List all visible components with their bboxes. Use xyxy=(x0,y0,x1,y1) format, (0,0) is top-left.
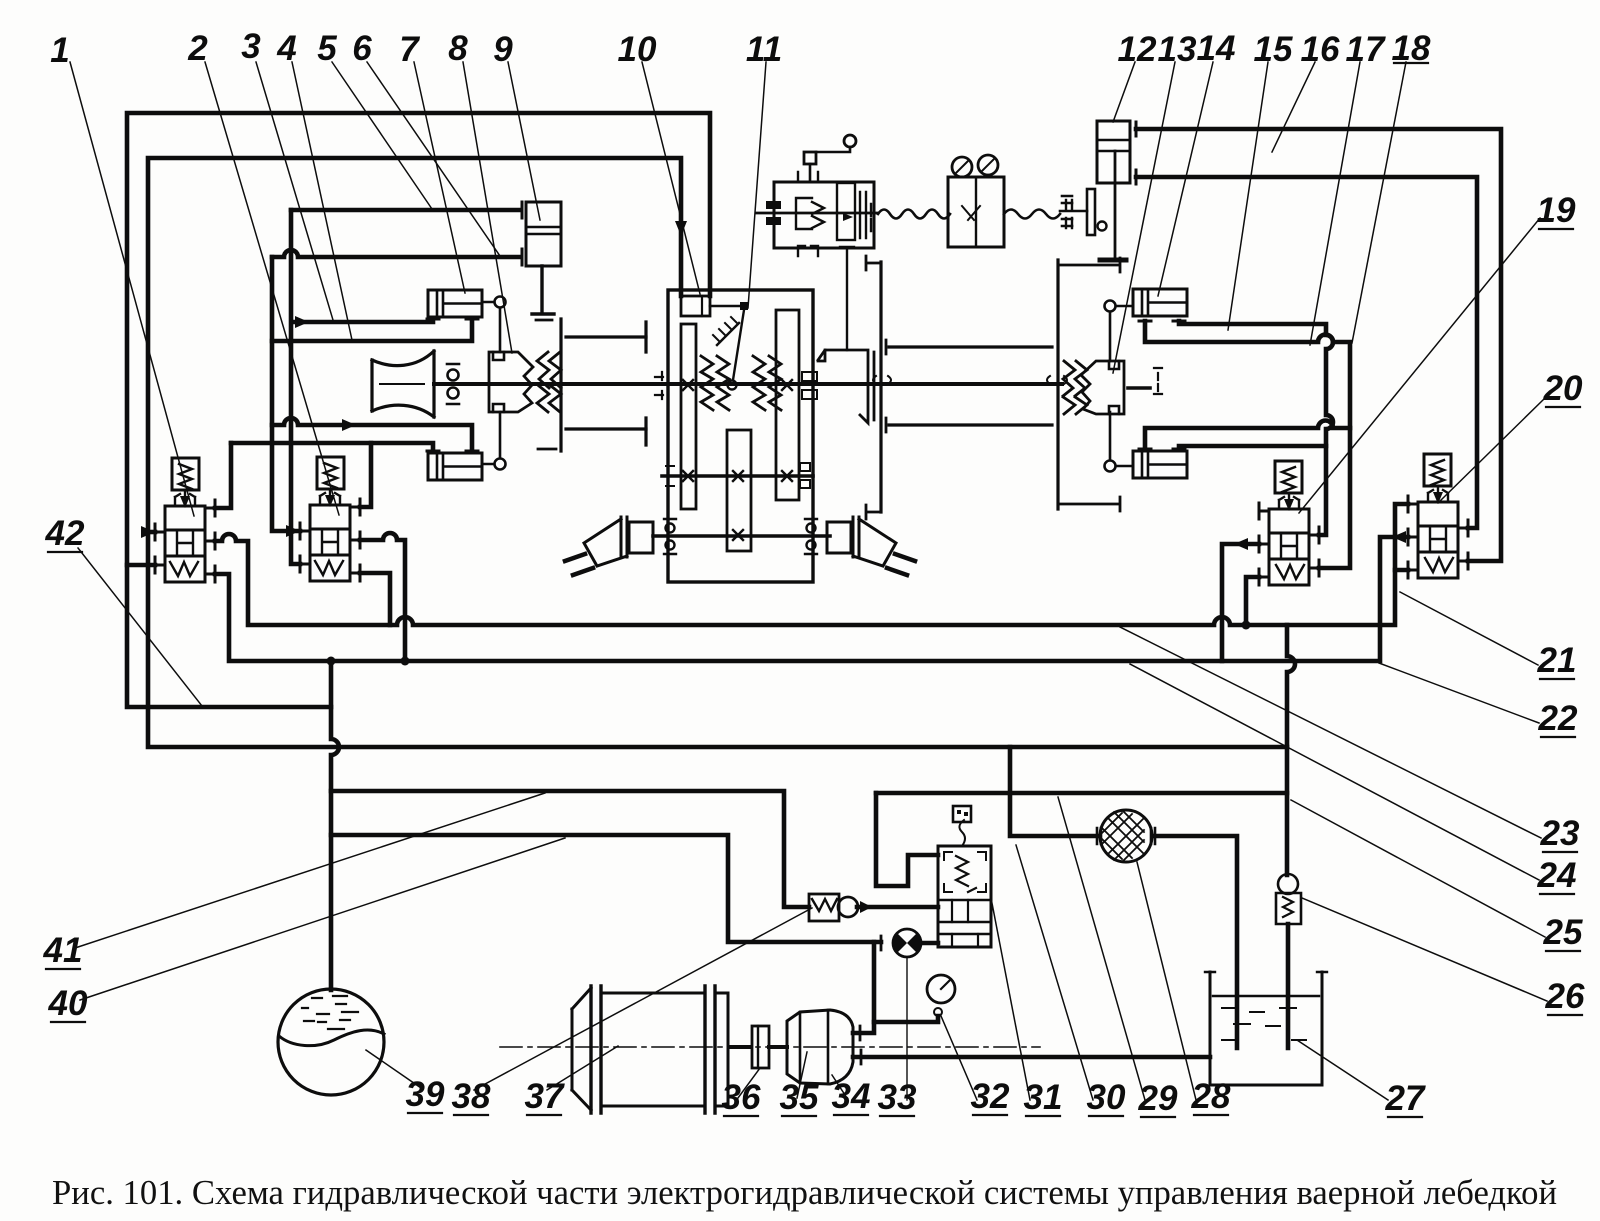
bearing curls at wheel shaft xyxy=(873,376,1067,384)
svg-text:36: 36 xyxy=(722,1078,761,1117)
clutch spring jaws xyxy=(537,352,549,412)
drum roller bars xyxy=(447,364,459,404)
svg-text:14: 14 xyxy=(1197,29,1236,68)
bottom bearing brackets xyxy=(798,246,818,256)
cylinder 15 (lower right brake cylinder) xyxy=(1133,451,1187,478)
pilot circle on lever xyxy=(844,135,856,147)
svg-text:15: 15 xyxy=(1254,30,1293,69)
wire: left stub to valve V1 mid-left port xyxy=(148,530,155,535)
wire: pump suction from tank 27 xyxy=(853,1055,1210,1060)
svg-text:10: 10 xyxy=(618,30,657,69)
leader 37 xyxy=(547,1046,618,1090)
motor left drain lines xyxy=(565,554,593,575)
leader 34 xyxy=(832,1075,847,1098)
cylinder 14 (upper right brake cylinder) xyxy=(1133,289,1187,316)
tank 27 wall caps xyxy=(1205,971,1327,973)
sensor roller right xyxy=(978,155,998,175)
svg-text:21: 21 xyxy=(1537,641,1577,680)
svg-text:Рис. 101. Схема гидравлической: Рис. 101. Схема гидравлической части эле… xyxy=(52,1173,1557,1212)
sensor box divider xyxy=(975,177,977,247)
arrow at valve V3 mid-left port xyxy=(1234,538,1248,550)
right jaw clutch block xyxy=(1081,361,1124,414)
swash plate pivot xyxy=(1098,222,1107,231)
mechanism shaft xyxy=(756,212,878,215)
clutch block notches xyxy=(493,352,504,412)
gear mesh right pair xyxy=(753,356,781,410)
cylinder 9 port bars xyxy=(521,202,524,265)
winch drum (item 39-area spool) xyxy=(372,351,434,417)
underlines labels 19-26 xyxy=(1539,229,1582,1015)
link circle lower xyxy=(1105,461,1116,472)
wire: pipe from cylinder 12 upper port to right rail x1501 valve V4 xyxy=(1136,129,1501,561)
small jaw clutch xyxy=(796,198,824,229)
cylinder 8 piston circle and rod xyxy=(495,459,506,470)
clutch spring jaw 2 xyxy=(549,352,561,412)
filter 28 xyxy=(1100,810,1152,862)
wire: check valve outlet to relief block xyxy=(857,905,938,910)
cylinder 12 rod and foot plate xyxy=(1114,151,1117,259)
selector cylinder divider xyxy=(701,296,703,316)
svg-text:42: 42 xyxy=(45,514,85,553)
bracket corner xyxy=(818,350,825,361)
cylinder 8 link and rod xyxy=(482,412,500,464)
right jaw clutch spring jaws xyxy=(1063,361,1075,414)
solenoid squiggle and connector 32-block xyxy=(959,820,965,846)
relief valve 26 xyxy=(1278,874,1298,894)
svg-text:4: 4 xyxy=(276,29,296,68)
main shaft left section xyxy=(434,382,1062,386)
flow arrow on line y322 xyxy=(295,316,309,328)
left bearing block lower xyxy=(766,217,781,225)
rope wavy line left of sensor xyxy=(878,210,950,219)
leader 14 xyxy=(1158,62,1213,296)
shaft3 roller lower-right xyxy=(807,541,816,550)
shaft3 X mark xyxy=(733,530,743,540)
relief spring tail xyxy=(968,888,976,892)
tank 39 level dashes xyxy=(302,996,358,1029)
motor output shaft xyxy=(730,1045,751,1049)
wire: relief pilot segment y793 xyxy=(876,791,1287,796)
cylinder 12 piston lines xyxy=(1097,140,1130,151)
X valve filled quadrants xyxy=(893,933,921,953)
wire: inner frame line y257 to cylinder 9 with hop xyxy=(272,250,519,257)
wire: valve V2 bottom-right riser down to bus1 xyxy=(360,573,390,625)
leader 38 xyxy=(474,908,812,1090)
svg-text:32: 32 xyxy=(971,1077,1010,1116)
cylinder 9 piston lines xyxy=(526,227,561,234)
cylinder 12 body xyxy=(1097,121,1130,183)
selector pin diamond xyxy=(740,302,748,310)
disc end bars xyxy=(536,320,556,449)
leader 10 xyxy=(642,62,700,294)
top bearing brackets xyxy=(798,172,818,182)
leader 22 xyxy=(1379,663,1539,723)
wire: valve V2 top-right port riser xyxy=(360,443,371,507)
hydraulic motor right xyxy=(827,522,851,553)
leader 17 xyxy=(1310,62,1360,345)
cylinder 12 foot plate xyxy=(1100,258,1126,263)
link pivot on shaft xyxy=(728,381,737,390)
jaw clutch left half xyxy=(489,352,533,412)
right channel xyxy=(860,192,866,238)
cylinder 12 port bars xyxy=(1135,122,1138,184)
svg-text:37: 37 xyxy=(525,1077,565,1116)
pressure gauge 32 xyxy=(927,975,955,1003)
svg-text:25: 25 xyxy=(1543,913,1583,952)
selector link xyxy=(733,310,744,380)
gear bar middle xyxy=(727,430,751,551)
wire: X-valve to relief block xyxy=(920,941,938,946)
shaft3 rollers right xyxy=(807,524,816,533)
right clutch block notches xyxy=(1109,361,1119,414)
wire: relief block top-left port piping xyxy=(876,793,938,886)
underline label 18 xyxy=(1394,62,1428,64)
sensor box xyxy=(948,177,1004,247)
leader 41 xyxy=(75,793,545,948)
wire: inner frame line y210 to cylinder 9 xyxy=(291,208,519,213)
shaft3 roller bars left xyxy=(664,519,676,554)
wire: relief valve 26 to tank 27 xyxy=(1286,924,1291,1048)
gear mesh waves xyxy=(701,356,729,410)
valve V4 (item 20, mirrored) xyxy=(1408,454,1468,578)
svg-text:16: 16 xyxy=(1301,30,1340,69)
arrow at valve V4 mid-left port xyxy=(1392,531,1406,543)
wire: pipe from cylinder 12 lower port to right rail x1477 valve V4 xyxy=(1136,177,1477,528)
svg-text:20: 20 xyxy=(1543,369,1583,408)
bearing glyphs near gearbox left xyxy=(655,372,663,399)
solenoid connector box 32 xyxy=(953,806,971,822)
cylinder 9 body xyxy=(526,202,561,266)
svg-text:9: 9 xyxy=(493,30,513,69)
swash plate stub xyxy=(1060,210,1087,213)
hydraulic motor left (item 10-area) xyxy=(629,522,653,553)
right disc stubs xyxy=(1058,258,1120,511)
motor right cone xyxy=(853,519,896,566)
drum shaft roller lower xyxy=(448,388,459,399)
leader 12 xyxy=(1113,62,1135,122)
leader 39 xyxy=(366,1050,421,1088)
left bearing blocks xyxy=(766,201,781,209)
svg-text:5: 5 xyxy=(317,29,337,68)
mechanism arrow xyxy=(843,213,853,221)
leader 35 xyxy=(797,1052,807,1098)
leader 21 xyxy=(1400,592,1538,665)
wire: left rail x291 down to valve V2 bottom port xyxy=(291,210,300,564)
leader 20 xyxy=(1438,398,1545,503)
leader 40 xyxy=(80,838,565,1000)
svg-text:35: 35 xyxy=(780,1078,819,1117)
oil tank 39 (sphere) xyxy=(278,989,384,1095)
svg-text:23: 23 xyxy=(1540,814,1580,853)
connector box dots xyxy=(957,810,968,816)
valve V3 (item 19, mirrored) xyxy=(1259,461,1319,585)
wire: valve V3 mid-left riser down crossing bus1 to bus2 xyxy=(1222,544,1259,661)
wire: left stub to valve V1 bottom-left port xyxy=(127,563,155,568)
anchor hatch ticks xyxy=(713,317,738,342)
node: bus2 junction tank riser xyxy=(327,657,336,666)
shaft crossing X marks xyxy=(683,380,792,390)
wire: valve V4 bottom-left stub xyxy=(1395,568,1408,573)
link rods xyxy=(1110,306,1133,466)
mechanism right bars xyxy=(870,204,872,231)
check valve 38 xyxy=(809,894,839,921)
leader 8 xyxy=(463,62,512,353)
gear bar right xyxy=(776,310,799,500)
svg-text:8: 8 xyxy=(448,29,468,68)
tank 27 liquid level xyxy=(1213,995,1319,997)
wire: valve V2 mid-right riser down to bus2 xyxy=(360,533,405,661)
cylinder 9 body xyxy=(522,202,561,314)
relief 26 spring box xyxy=(1276,893,1301,924)
selector pin and link xyxy=(710,305,742,308)
relief block cell dividers xyxy=(952,900,978,947)
svg-text:12: 12 xyxy=(1118,30,1157,69)
electric motor 37 xyxy=(572,988,728,1110)
small valve square xyxy=(804,152,816,164)
wire: valve V1 top-right port riser xyxy=(215,443,231,508)
coupling 36 xyxy=(752,1026,769,1068)
cylinder 7 port bars xyxy=(427,318,478,321)
pilot lever line xyxy=(816,147,850,152)
underlines labels 40-42 xyxy=(46,552,85,1022)
check valve spring xyxy=(812,899,837,911)
wire: bus 1 from valve V1 mid-right port to right valve V4 xyxy=(215,504,1408,625)
relief block dashed corners xyxy=(944,852,986,892)
motor right drain lines xyxy=(887,554,915,575)
wire: valve V3 bottom-left riser down to bus1 xyxy=(1246,577,1259,625)
svg-text:27: 27 xyxy=(1385,1079,1426,1118)
leader 7 xyxy=(414,62,465,293)
leader 1 xyxy=(70,62,194,516)
wire: rail A cylinder 14 right port to valve V3 top-right xyxy=(1179,321,1333,535)
wire: pump outlet riser xyxy=(853,942,874,1033)
gauge stem circle xyxy=(934,1008,942,1016)
leader 30 xyxy=(1016,845,1093,1100)
motor shaft dash-dot axis xyxy=(500,1046,1040,1048)
tank 39 oil level wave xyxy=(279,1030,384,1046)
wire: lower line y425 to cylinder 8 right port with hop xyxy=(272,418,472,451)
svg-text:40: 40 xyxy=(48,984,88,1023)
X distribution valve 33 xyxy=(893,929,921,957)
leader 18 xyxy=(1352,62,1406,343)
leader 26 xyxy=(1302,898,1547,1001)
wire: lower line y443 valve risers to cylinder 8 left port xyxy=(231,443,433,451)
wire: riser x1287 from bus1 to relief valve 26 with jog xyxy=(1287,625,1295,875)
check valve flow arrow xyxy=(860,901,872,913)
leader 32 xyxy=(941,1016,977,1100)
wire: branch down to filter xyxy=(1010,747,1097,836)
wire: pipe P2 second frame loop and long supply line to filter branch xyxy=(148,158,1287,747)
leader 6 xyxy=(367,62,500,256)
wheel end stubs xyxy=(866,256,881,519)
flow arrow on pipe P2 vertical xyxy=(675,221,687,236)
svg-text:6: 6 xyxy=(352,29,372,68)
svg-text:2: 2 xyxy=(187,29,208,68)
svg-text:30: 30 xyxy=(1087,1078,1126,1117)
leader 2 xyxy=(205,62,339,515)
pump input shaft xyxy=(769,1045,787,1049)
wire: branch y835 to pump suction loop xyxy=(331,835,881,942)
wire: left rail x272 down to valve V2 mid port xyxy=(272,257,300,531)
shaft3 rollers left xyxy=(666,524,675,533)
gearbox housing xyxy=(668,290,813,582)
wire: cylinder 15 left port line to rail B with hop xyxy=(1145,421,1350,449)
wheel rim lines xyxy=(566,337,646,429)
bearing glyphs shaft2 ends xyxy=(666,463,810,488)
svg-text:34: 34 xyxy=(832,1077,871,1116)
motor right flange bars xyxy=(853,517,859,557)
wire: bus 2 from valve V1 bottom-right port to right valve V4 mid xyxy=(215,537,1408,661)
leader 13 xyxy=(1113,62,1175,373)
cylinder 15 port bars xyxy=(1139,448,1185,451)
leader 25 xyxy=(1291,800,1545,937)
leader 27 xyxy=(1297,1040,1388,1100)
check valve ball xyxy=(838,897,858,917)
svg-text:29: 29 xyxy=(1138,1079,1178,1118)
drum axis line xyxy=(380,383,424,385)
underlines labels 27-39 xyxy=(408,1113,1422,1117)
arrow into valve V2 mid-left port xyxy=(286,525,300,537)
wire: pipe P1 outer frame left loop to gearbox cylinder xyxy=(127,113,710,707)
relief 26 spring xyxy=(1283,897,1293,917)
gear bar left xyxy=(681,324,696,509)
svg-text:33: 33 xyxy=(878,1078,917,1117)
cylinder 14 port bars xyxy=(1139,320,1185,323)
leader 19 xyxy=(1299,218,1540,513)
pressure disc vertical xyxy=(559,319,562,451)
anchor hatch xyxy=(717,323,739,345)
cylinder 7 piston circle and rod to clutch xyxy=(495,297,506,308)
small gear bar xyxy=(837,183,855,240)
tension unit housing xyxy=(774,182,874,248)
right gear disc xyxy=(1056,260,1059,509)
swash plate and pivot xyxy=(1087,189,1095,235)
node: bus2 junction valve2 riser xyxy=(401,657,410,666)
tank 27 liquid dashes xyxy=(1222,1008,1306,1040)
drum shaft rollers xyxy=(448,370,459,381)
bearing marks left of plate xyxy=(1062,196,1072,226)
pump body dividers xyxy=(800,1010,828,1084)
small tank 27 xyxy=(1210,972,1322,1085)
wheel bracket plate xyxy=(818,350,874,423)
cylinder 7 (upper left brake cylinder) xyxy=(428,290,482,317)
leader 29 xyxy=(1058,797,1145,1100)
svg-text:3: 3 xyxy=(241,27,261,66)
leader 23 xyxy=(1120,627,1541,838)
svg-text:7: 7 xyxy=(399,30,420,69)
rope end brackets xyxy=(1066,200,1072,228)
pump 34/35 xyxy=(787,1010,853,1084)
svg-text:19: 19 xyxy=(1537,191,1576,230)
shaft2 X marks xyxy=(683,471,792,481)
motor left cone xyxy=(584,519,627,566)
leader 36 xyxy=(738,1068,760,1098)
leader 4 xyxy=(292,62,352,340)
wire: gauge connection line xyxy=(874,1016,938,1022)
filter flange ticks xyxy=(1097,828,1155,844)
leader 42 xyxy=(78,548,202,706)
relief block section lines xyxy=(938,900,991,934)
link from tension housing down to bracket xyxy=(840,247,854,350)
relief/control block 31 xyxy=(938,846,991,947)
wheel rim verticals xyxy=(644,322,647,445)
svg-text:38: 38 xyxy=(452,1077,491,1116)
wire: brake line y322 to cylinder 7 left port xyxy=(295,319,433,322)
wire: brake line y341 to cylinder 7 right port xyxy=(272,319,472,341)
node: bus1 junction with valve3 riser xyxy=(1242,621,1251,630)
right clutch shaft xyxy=(1128,386,1150,390)
bearing glyphs right clutch xyxy=(1154,368,1162,394)
leader 33 xyxy=(906,957,908,1100)
motor 37 flange bars xyxy=(591,986,715,1113)
wheel rim lines right assembly xyxy=(889,347,1052,425)
motor left flange bars xyxy=(621,517,627,557)
leader 16 xyxy=(1272,62,1315,152)
coupling divider xyxy=(757,1026,759,1068)
wire: cylinder 15 right port line to rail A xyxy=(1179,446,1326,449)
cylinder 9 rod and foot xyxy=(532,266,554,314)
wire: branch y791 to check valve xyxy=(331,791,809,907)
bearing squares on main shaft at gearbox edge xyxy=(802,372,817,399)
valve V1 (left-most electrohydraulic valve, item 1) xyxy=(155,458,215,582)
countershaft 2 xyxy=(662,474,813,478)
roller slashes xyxy=(955,158,995,174)
cylinder 8 port bars xyxy=(427,450,478,453)
sensor break marks xyxy=(962,206,980,220)
shaft3 roller bars right xyxy=(805,519,817,554)
rope wavy line right of sensor xyxy=(1004,210,1060,219)
right clutch spring jaw 2 xyxy=(1075,361,1087,414)
wire: filter outlet to small tank 27 xyxy=(1155,836,1237,1048)
svg-text:17: 17 xyxy=(1346,30,1386,69)
svg-text:26: 26 xyxy=(1545,977,1585,1016)
leader 15 xyxy=(1228,62,1268,330)
shaft3 roller lower-left xyxy=(666,541,675,550)
leader 11 xyxy=(748,62,766,308)
flow arrow on line y425 xyxy=(342,419,356,431)
valve V2 (item 2) xyxy=(300,457,360,581)
svg-text:39: 39 xyxy=(406,1075,445,1114)
pilot rod xyxy=(809,164,812,180)
cylinder 7 link and rod xyxy=(482,302,500,352)
filter crosshatch xyxy=(1101,810,1144,862)
motor shaft 3 xyxy=(653,534,830,538)
leader 5 xyxy=(332,62,432,209)
arrow into valve V1 mid-left port xyxy=(141,526,155,538)
sensor rollers xyxy=(952,157,972,177)
rim end bars xyxy=(885,340,888,432)
gauge needle xyxy=(941,980,950,989)
cylinder 8 (lower left brake cylinder) xyxy=(428,453,482,480)
svg-text:28: 28 xyxy=(1191,1077,1231,1116)
svg-text:11: 11 xyxy=(746,30,782,69)
leader 9 xyxy=(508,62,540,220)
svg-text:41: 41 xyxy=(43,931,83,970)
link circles and rod of right clutch lever (item 13) xyxy=(1105,301,1116,312)
leader 31 xyxy=(991,898,1030,1100)
svg-text:13: 13 xyxy=(1158,30,1197,69)
svg-text:24: 24 xyxy=(1537,856,1577,895)
pump port bars and line tick xyxy=(860,936,881,1064)
svg-text:1: 1 xyxy=(50,31,69,70)
wire: rail B cylinder 14 left port to valve V3 bottom-right with hop xyxy=(1145,321,1350,568)
selector cylinder inside top xyxy=(681,296,710,316)
wire: tank39 riser from bus2 down with hop over supply xyxy=(331,661,339,990)
leader 28 xyxy=(1137,862,1196,1100)
svg-text:22: 22 xyxy=(1538,699,1578,738)
right wheel disc xyxy=(879,262,882,512)
svg-text:31: 31 xyxy=(1024,1078,1063,1117)
